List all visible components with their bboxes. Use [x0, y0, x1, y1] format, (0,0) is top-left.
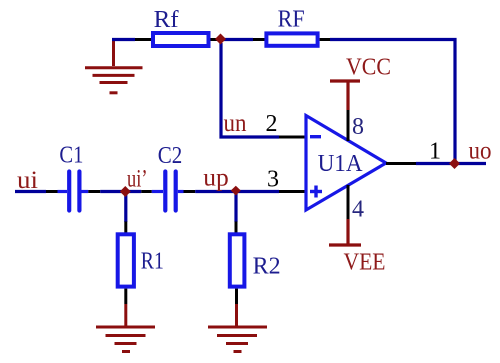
svg-text:uo: uo	[469, 138, 492, 165]
pin stub op-amp pin 2	[279, 136, 307, 139]
ground GND1 (top left)	[85, 38, 143, 93]
pin stub R1 top	[124, 222, 127, 234]
svg-text:4: 4	[352, 197, 364, 223]
svg-text:VCC: VCC	[346, 55, 391, 81]
svg-text:R2: R2	[253, 254, 281, 280]
pin stub C1 left	[46, 190, 58, 193]
wire up node down to R2	[234, 194, 237, 222]
pin stub C2 left	[141, 190, 152, 193]
pin stub op-amp pin 4 (bottom)	[347, 185, 350, 219]
pin stub Rf left	[135, 38, 152, 41]
resistor R2	[230, 234, 245, 286]
svg-text:RF: RF	[278, 7, 305, 33]
op-amp plus symbol	[310, 186, 322, 198]
resistor Rf	[153, 33, 209, 46]
svg-text:3: 3	[267, 167, 279, 193]
resistor RF	[266, 33, 317, 45]
pin stub RF right	[320, 38, 330, 41]
power port VCC	[330, 81, 360, 110]
svg-text:C1: C1	[59, 143, 83, 169]
capacitor C1	[58, 172, 89, 211]
wire C2 to pin 3 through node up	[195, 190, 279, 193]
wire RF to right corner down to output node	[330, 40, 455, 163]
pin stub RF left	[253, 38, 265, 41]
pin stub R2 top	[235, 222, 238, 234]
junction node up	[231, 186, 241, 196]
capacitor C2	[152, 172, 184, 211]
pin stub op-amp pin 8 (top)	[347, 108, 350, 141]
pin stub op-amp pin 1 (output)	[386, 162, 416, 165]
pin stub R2 bottom	[235, 289, 238, 304]
wire from GND1 to Rf	[112, 38, 135, 41]
wire from junction down to un corner and to pin 2	[221, 43, 279, 137]
resistor R1	[118, 234, 134, 286]
power port VEE	[329, 219, 361, 245]
svg-text:Rf: Rf	[154, 7, 179, 33]
svg-text:un: un	[224, 110, 247, 137]
ground GND3 (below R2)	[208, 304, 267, 352]
svg-text:up: up	[203, 165, 229, 192]
junction node ui'	[120, 186, 131, 197]
pin stub C2 right	[184, 190, 196, 193]
wire ui to C1	[15, 190, 46, 193]
svg-text:C2: C2	[158, 143, 183, 169]
svg-text:1: 1	[429, 139, 441, 165]
wire ui' node down to R1	[124, 194, 127, 222]
op-amp U1A triangle	[306, 116, 386, 211]
pin stub C1 right	[88, 190, 100, 193]
ground GND2 (below R1)	[96, 304, 155, 352]
svg-text:2: 2	[266, 111, 278, 137]
svg-text:R1: R1	[141, 249, 164, 275]
svg-text:ui’: ui’	[127, 166, 148, 193]
pin stub R1 bottom	[124, 289, 127, 304]
wire junction to RF	[224, 38, 253, 41]
wire C1 to C2 through node ui'	[100, 190, 141, 193]
pin stub Rf right	[211, 38, 218, 41]
pin stub op-amp pin 3	[279, 190, 307, 193]
svg-text:8: 8	[352, 114, 364, 140]
wire output	[416, 162, 486, 165]
junction node (Rf/RF/un)	[215, 34, 226, 45]
svg-text:U1A: U1A	[318, 151, 364, 177]
junction node uo	[449, 158, 460, 169]
svg-text:VEE: VEE	[344, 250, 386, 276]
op-amp minus symbol	[310, 135, 321, 138]
